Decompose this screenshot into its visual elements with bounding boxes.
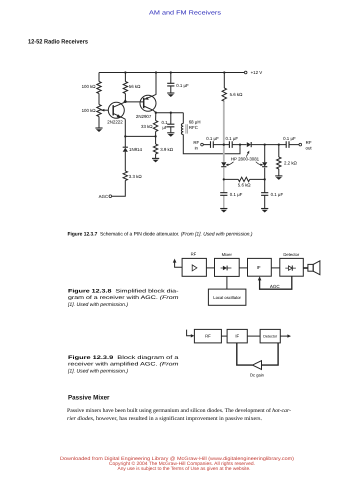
capacitor C4 0.1uF — [286, 141, 289, 148]
svg-text:HP 2800-3081: HP 2800-3081 — [231, 157, 260, 162]
svg-text:receiver with amplified AGC. (: receiver with amplified AGC. (From — [68, 362, 179, 368]
resistor 3.3k — [123, 171, 127, 181]
svg-text:33 kΩ: 33 kΩ — [141, 124, 153, 129]
terminal AGC — [109, 195, 112, 198]
block Detector — [280, 258, 304, 276]
svg-text:100 kΩ: 100 kΩ — [82, 84, 97, 89]
capacitor C3 0.1uF — [229, 141, 232, 148]
ground — [167, 132, 174, 134]
wire: bias line (light) — [223, 101, 225, 144]
resistor R1 100k — [97, 82, 101, 94]
ground — [220, 208, 227, 210]
block IF — [248, 258, 272, 276]
svg-text:Downloaded from Digital Engine: Downloaded from Digital Engineering Libr… — [60, 456, 294, 462]
wire — [271, 267, 280, 269]
wire: RFC bottom feed to RF line — [183, 135, 240, 154]
svg-text:5.6 kΩ: 5.6 kΩ — [238, 183, 252, 188]
wire: Q1 collector to Q2 base — [125, 101, 143, 103]
svg-text:gram of a receiver with AGC. (: gram of a receiver with AGC. (From — [68, 295, 179, 301]
svg-text:[1]. Used with permission.): [1]. Used with permission.) — [67, 369, 128, 375]
svg-text:μF: μF — [162, 125, 168, 130]
diode D1 1N914 — [123, 146, 128, 148]
wire: Q2 collector node — [156, 112, 184, 114]
block IF — [227, 329, 247, 343]
svg-text:out: out — [306, 145, 313, 150]
svg-text:Detector: Detector — [263, 335, 278, 339]
node — [223, 143, 225, 145]
ground — [275, 175, 282, 177]
ground — [152, 157, 159, 159]
ground — [261, 208, 268, 210]
resistor 33k — [153, 121, 157, 132]
svg-text:1N914: 1N914 — [129, 147, 142, 152]
feedback loop — [237, 343, 278, 365]
resistor 3.9k — [153, 144, 157, 154]
capacitor 0.1uF — [167, 124, 174, 127]
svg-text:AGC: AGC — [99, 194, 109, 199]
output arrow — [280, 335, 289, 337]
svg-text:2N2222: 2N2222 — [107, 119, 123, 124]
transistor Q2 2N2907 — [140, 95, 156, 111]
svg-text:3.9 kΩ: 3.9 kΩ — [160, 147, 174, 152]
svg-text:100 kΩ: 100 kΩ — [82, 108, 97, 113]
block RF — [194, 329, 221, 343]
svg-text:Figure 12.3.9 Block diagram o: Figure 12.3.9 Block diagram of a — [68, 355, 179, 361]
svg-text:56 kΩ: 56 kΩ — [129, 84, 141, 89]
input arrow — [187, 330, 193, 336]
wire to speaker — [303, 267, 308, 269]
antenna input — [175, 261, 183, 267]
node — [278, 143, 280, 145]
pot wiper arrow to Q1 base — [103, 109, 108, 111]
wire — [98, 73, 100, 128]
wire mixer to LO — [226, 276, 228, 289]
pointer to right diode — [256, 162, 261, 165]
node — [239, 143, 241, 145]
svg-text:Figure 12.3.7 Schematic of a: Figure 12.3.7 Schematic of a PIN diode a… — [68, 231, 253, 237]
transistor Q1 2N2222 — [108, 102, 124, 118]
svg-text:Dc gain: Dc gain — [250, 372, 265, 377]
svg-text:AM and FM Receivers: AM and FM Receivers — [149, 9, 221, 16]
diode D3 shunt PIN — [221, 162, 226, 166]
svg-text:Copyright © 2004 The McGraw-Hi: Copyright © 2004 The McGraw-Hill Compani… — [109, 461, 255, 467]
svg-text:in: in — [195, 145, 199, 150]
wire — [221, 335, 227, 337]
resistor 5.6k — [222, 88, 226, 101]
capacitor 0.1uF — [220, 193, 227, 196]
svg-text:IF: IF — [257, 265, 261, 270]
block Detector — [260, 329, 280, 343]
node — [264, 143, 266, 145]
inductor RFC 68uH — [181, 124, 183, 135]
wire — [247, 335, 260, 337]
svg-text:rier diodes, however, has resu: rier diodes, however, has resulted in a … — [67, 416, 263, 422]
AGC feedback wire — [260, 276, 292, 289]
svg-text:Local oscillator: Local oscillator — [213, 295, 241, 300]
ground — [95, 127, 102, 129]
terminal RF out — [299, 143, 302, 146]
svg-text:2.2 kΩ: 2.2 kΩ — [284, 161, 298, 166]
diode D4 shunt PIN — [264, 145, 266, 209]
svg-text:0.1 μF: 0.1 μF — [230, 192, 243, 197]
resistor 5.6k horizontal — [238, 177, 249, 181]
svg-text:0.1 μF: 0.1 μF — [226, 136, 239, 141]
svg-text:RF: RF — [205, 334, 211, 339]
wire: +12V top rail — [99, 72, 244, 74]
capacitor 0.1uF — [167, 83, 174, 86]
wire — [124, 73, 126, 102]
wire — [170, 113, 172, 133]
svg-text:Passive Mixer: Passive Mixer — [68, 395, 110, 402]
svg-text:Any use is subject to the Term: Any use is subject to the Terms of Use a… — [118, 466, 251, 472]
wire — [170, 73, 172, 93]
capacitor C2 0.1uF — [211, 141, 214, 148]
svg-text:[1]. Used with permission.): [1]. Used with permission.) — [67, 302, 128, 308]
terminal +12V — [244, 71, 247, 74]
wire — [278, 145, 280, 176]
diode D2 series PIN — [247, 142, 251, 147]
svg-text:Passive mixers have been built: Passive mixers have been built using ger… — [67, 408, 291, 414]
wire — [182, 113, 184, 124]
svg-text:RF: RF — [306, 140, 312, 145]
svg-text:AGC: AGC — [270, 284, 281, 289]
svg-text:0.1 μF: 0.1 μF — [271, 192, 284, 197]
amplifier Dc gain — [253, 361, 262, 370]
svg-text:0.1 μF: 0.1 μF — [176, 83, 189, 88]
capacitor 0.1uF — [261, 193, 268, 196]
svg-text:Mixer: Mixer — [222, 252, 233, 257]
svg-text:RF: RF — [191, 252, 197, 257]
svg-text:0.1 μF: 0.1 μF — [206, 136, 219, 141]
block Local oscillator — [208, 289, 246, 305]
wire — [206, 267, 214, 269]
wire RF line — [203, 144, 299, 146]
svg-text:12-52 Radio Receivers: 12-52 Radio Receivers — [28, 39, 89, 46]
wire: node to emitter branch — [125, 135, 155, 137]
wire — [223, 73, 225, 89]
block Mixer — [215, 258, 240, 276]
svg-text:RFC: RFC — [189, 125, 198, 130]
svg-text:3.3 kΩ: 3.3 kΩ — [129, 174, 143, 179]
svg-text:2N2907: 2N2907 — [136, 114, 152, 119]
speaker — [308, 264, 313, 271]
block RF — [182, 258, 206, 276]
svg-text:Detector: Detector — [283, 252, 299, 257]
wire: shunt bottoms — [224, 178, 265, 180]
svg-text:+12 V: +12 V — [251, 70, 263, 75]
wire — [155, 113, 157, 159]
svg-text:0.1 μF: 0.1 μF — [283, 136, 296, 141]
resistor 2.2k — [277, 157, 281, 169]
svg-text:5.6 kΩ: 5.6 kΩ — [230, 92, 244, 97]
terminal RF in — [201, 143, 204, 146]
svg-text:RF: RF — [193, 140, 199, 145]
svg-text:Figure 12.3.8 Simplified bloc: Figure 12.3.8 Simplified block dia- — [68, 288, 179, 294]
pointer to left diode — [228, 162, 234, 165]
wire — [112, 119, 126, 196]
ground — [167, 92, 174, 94]
wire — [239, 267, 247, 269]
pointer to series diode — [246, 152, 248, 156]
potentiometer R2 100k — [97, 105, 101, 117]
resistor 56k — [123, 82, 127, 94]
svg-text:IF: IF — [235, 334, 239, 339]
